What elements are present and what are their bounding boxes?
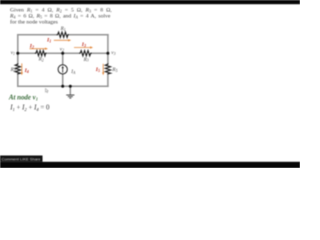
resistor R2: [35, 51, 46, 56]
svg-text:I3: I3: [81, 42, 86, 48]
node v2: [61, 52, 64, 55]
current arrow I3: [74, 46, 93, 48]
resistor R5: [105, 63, 110, 74]
wire middle rail R3 to v3: [92, 52, 108, 54]
mouse cursor: [45, 88, 48, 93]
svg-text:I2: I2: [29, 44, 34, 50]
resistor R4: [15, 63, 20, 74]
top letterbox bar: [0, 0, 300, 4]
wire left vertical upper: [17, 35, 19, 64]
wire right vertical upper: [107, 35, 109, 64]
junction ground: [69, 85, 72, 88]
svg-text:I5: I5: [95, 67, 100, 73]
current source IA: [58, 65, 67, 74]
wire middle rail R2 to R3: [46, 52, 79, 54]
current arrow I2: [30, 48, 48, 50]
wire right vertical lower: [107, 74, 109, 86]
wire middle rail v1 to R2: [18, 52, 35, 54]
svg-text:I1: I1: [46, 37, 51, 43]
wire bottom rail: [18, 85, 108, 87]
current arrow I4: [21, 63, 23, 75]
watermark pill: [0, 156, 43, 162]
svg-text:for the node voltages: for the node voltages: [10, 19, 59, 26]
wire source bottom stub: [62, 74, 64, 86]
node v1: [16, 52, 19, 55]
wire ground stub: [69, 86, 71, 94]
node v3: [106, 52, 109, 55]
wire top rail right segment: [69, 34, 108, 36]
wire top rail left segment: [18, 34, 57, 36]
wire left vertical lower: [17, 74, 19, 86]
wire source top stub: [62, 53, 64, 65]
current arrow I5: [102, 64, 104, 75]
svg-text:I4: I4: [24, 68, 29, 74]
junction source-bottom: [61, 85, 64, 88]
resistor R3: [79, 51, 91, 56]
current arrow I1: [54, 39, 71, 41]
svg-text:Comment LIKE Share: Comment LIKE Share: [2, 156, 42, 161]
resistor R1: [57, 32, 69, 37]
svg-text:I1 + I2 + I4 = 0: I1 + I2 + I4 = 0: [9, 105, 50, 112]
ground: [66, 95, 74, 98]
bottom letterbox bar: [0, 162, 300, 168]
svg-text:At node v1: At node v1: [8, 94, 38, 101]
